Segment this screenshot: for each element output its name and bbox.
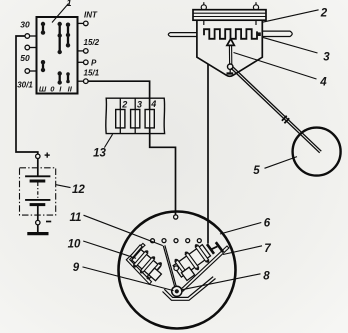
leader 2: [263, 10, 319, 22]
svg-text:P: P: [91, 59, 97, 68]
fuse block leader 13: [104, 134, 112, 147]
float lever arm: [231, 68, 320, 153]
right coil L2 bracket: [181, 246, 229, 291]
terminal 15/1: [78, 80, 84, 82]
sender flange: [193, 10, 266, 21]
lever break marks: [282, 116, 287, 121]
battery leader 12: [56, 185, 71, 188]
svg-text:Ш: Ш: [39, 85, 47, 94]
leader 8: [182, 274, 261, 290]
leader 9: [83, 267, 174, 291]
rheostat winding R1: [204, 29, 257, 39]
leader 3: [262, 37, 318, 53]
battery mid link: [37, 183, 39, 200]
plus sign: [45, 153, 50, 158]
leader 6: [220, 223, 261, 235]
right coil winding: [173, 245, 210, 278]
needle pivot: [172, 286, 182, 296]
svg-text:3: 3: [137, 100, 142, 110]
svg-text:1: 1: [67, 0, 72, 8]
svg-text:6: 6: [264, 217, 271, 229]
svg-text:15/2: 15/2: [84, 38, 100, 47]
left coil winding sections: [134, 251, 148, 267]
right coil section dots: [175, 259, 178, 262]
svg-text:5: 5: [253, 165, 260, 177]
tank wall left: [168, 33, 197, 37]
svg-text:2: 2: [121, 100, 127, 110]
svg-text:INT: INT: [84, 11, 98, 20]
terminal 30/1: [30, 70, 37, 72]
terminal 15/2: [78, 50, 84, 52]
gauge input terminal node: [174, 215, 178, 219]
switch contact column b: [58, 22, 62, 85]
right coil pole core: [181, 267, 194, 280]
gauge terminal dots row: [151, 239, 202, 243]
left coil pole core: [149, 268, 162, 281]
leader 11: [84, 215, 163, 245]
wire minus to ground: [37, 225, 39, 232]
svg-text:11: 11: [70, 212, 82, 224]
float B1: [293, 128, 341, 176]
switch contact column c: [66, 23, 70, 84]
battery minus terminal node: [36, 220, 40, 224]
terminal 30: [30, 35, 37, 37]
fuse F1: [119, 98, 121, 109]
battery cell 1: [25, 175, 50, 177]
gauge case circle: [119, 212, 236, 329]
svg-text:3: 3: [323, 52, 330, 64]
wire plus to cell: [37, 159, 39, 177]
svg-text:30/1: 30/1: [17, 81, 33, 90]
right coil winding sections: [175, 260, 188, 277]
minus sign: [46, 221, 51, 223]
right coil end dot: [174, 266, 179, 271]
fuse F3: [145, 110, 154, 128]
left coil section dots: [145, 250, 148, 253]
battery cell 2: [25, 199, 50, 201]
svg-text:15/1: 15/1: [84, 69, 100, 78]
terminal INT: [78, 22, 84, 24]
right coil magnet bars: [207, 244, 214, 254]
ignition switch U1 leader: [52, 4, 69, 23]
left coil L1 bracket: [126, 243, 151, 284]
wire fuse4 to gauge terminal: [150, 128, 176, 215]
svg-text:50: 50: [20, 53, 30, 63]
gauge bottom bracket: [163, 279, 216, 301]
svg-text:2: 2: [320, 8, 328, 20]
leader 10: [83, 241, 136, 258]
sender bolt left: [203, 2, 205, 25]
switch position labels: [39, 85, 73, 94]
fuse F2: [134, 98, 136, 109]
left coil end bar: [130, 245, 142, 258]
ground: [27, 232, 48, 235]
terminal P: [78, 61, 84, 63]
sender output wire to gauge: [207, 64, 209, 244]
battery plus terminal node: [36, 154, 40, 158]
svg-text:9: 9: [73, 262, 80, 274]
leader 4: [234, 53, 317, 80]
ignition switch S1 body: [37, 17, 78, 94]
svg-text:4: 4: [150, 99, 156, 109]
svg-text:8: 8: [263, 270, 270, 282]
rheostat terminal: [256, 32, 260, 36]
svg-text:4: 4: [319, 77, 327, 89]
leader 7: [223, 246, 262, 255]
battery GB1 outline: [20, 168, 56, 215]
wire terminal30 to battery plus: [16, 36, 38, 154]
sender body: [197, 20, 262, 76]
sender bolt right: [255, 2, 257, 25]
wire terminal15/1 to fuse 4: [88, 81, 150, 109]
wiper shaft: [228, 46, 230, 64]
wiper arrow: [227, 39, 234, 46]
switch contact column a: [41, 22, 45, 72]
terminal 50: [30, 47, 37, 49]
wiper pivot: [228, 64, 233, 69]
tank wall right: [262, 31, 292, 36]
pivot stand: [229, 69, 231, 72]
float leader 5: [265, 157, 298, 169]
svg-text:10: 10: [68, 239, 81, 251]
left coil winding: [132, 250, 161, 278]
svg-text:7: 7: [264, 243, 271, 255]
svg-text:30: 30: [20, 20, 30, 30]
wire cell to minus: [37, 205, 39, 220]
fuse block FB body: [106, 98, 165, 133]
gauge needle: [163, 246, 176, 291]
svg-text:12: 12: [72, 184, 85, 196]
svg-text:13: 13: [93, 148, 106, 160]
